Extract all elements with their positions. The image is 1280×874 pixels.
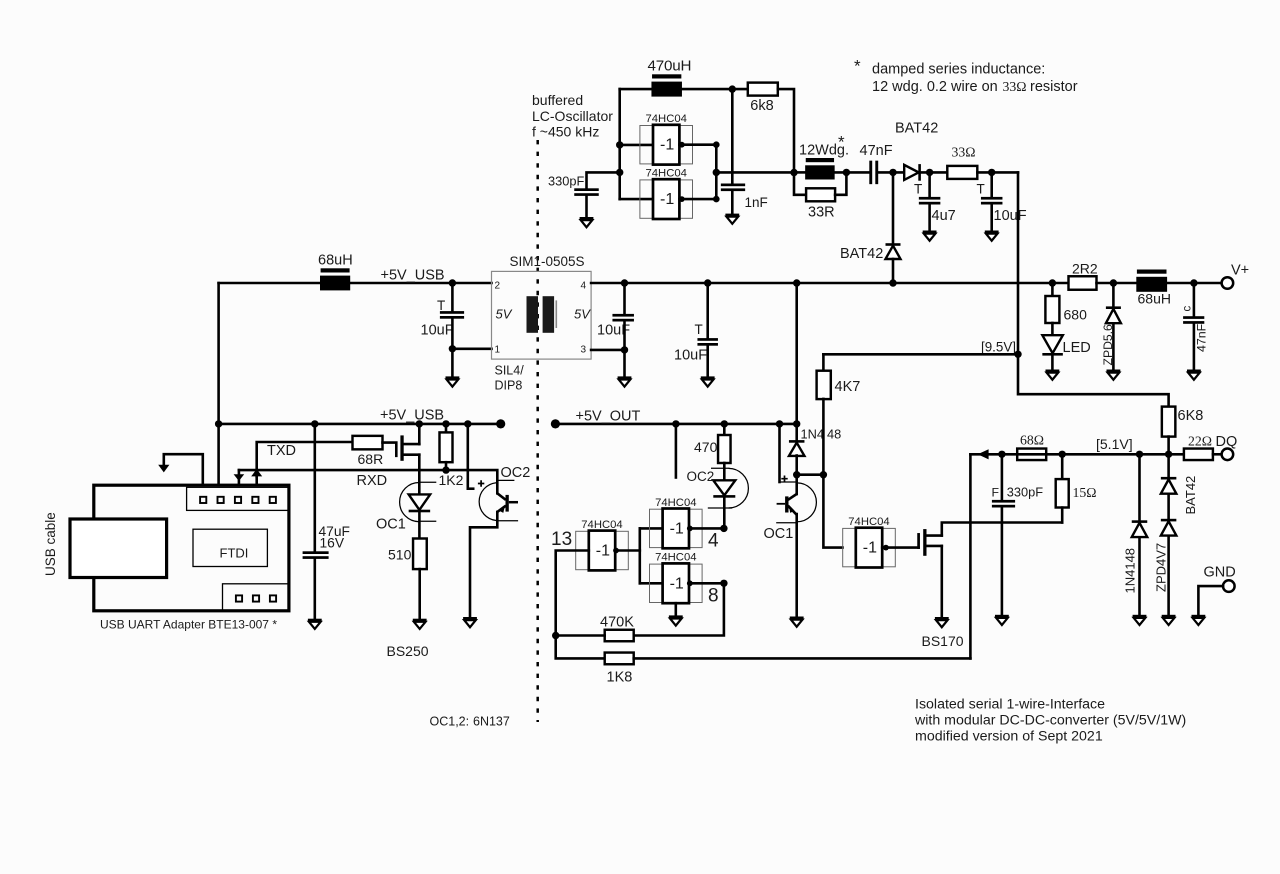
inductor L 68uH right bbox=[1137, 270, 1167, 274]
svg-text:SIM1-0505S: SIM1-0505S bbox=[510, 254, 585, 269]
svg-text:T: T bbox=[437, 298, 445, 313]
inverter U4 74HC04 pin8 bbox=[650, 564, 703, 602]
svg-text:BAT42: BAT42 bbox=[895, 121, 938, 137]
svg-text:33Ω: 33Ω bbox=[1003, 79, 1027, 94]
DC-DC module U SIM1-0505S box bbox=[492, 271, 592, 359]
svg-text:12 wdg. 0.2 wire on: 12 wdg. 0.2 wire on bbox=[872, 79, 998, 95]
svg-text:10uF: 10uF bbox=[421, 323, 454, 339]
capacitor C T 10uF second bbox=[706, 283, 709, 338]
svg-text:68Ω: 68Ω bbox=[1020, 433, 1044, 448]
node: 680 branch bbox=[1049, 279, 1056, 286]
wire: input cap to pin1 node bbox=[451, 319, 454, 349]
svg-text:ZPD4V7: ZPD4V7 bbox=[1153, 543, 1168, 592]
svg-text:16V: 16V bbox=[320, 536, 345, 551]
svg-text:4: 4 bbox=[708, 531, 719, 552]
node: 6K8/zener branch on 5.1V rail bbox=[1165, 451, 1172, 458]
svg-text:510: 510 bbox=[388, 547, 412, 563]
svg-text:-1: -1 bbox=[660, 191, 674, 208]
svg-text:OC1,2:: OC1,2: bbox=[430, 715, 470, 729]
resistor R 68ohm bbox=[1017, 449, 1046, 461]
ground below input cap bbox=[451, 349, 454, 377]
svg-text:8: 8 bbox=[708, 586, 719, 607]
svg-text:680: 680 bbox=[1064, 307, 1088, 323]
svg-text:74HC04: 74HC04 bbox=[655, 552, 696, 564]
ground below pin8 inverter bbox=[674, 603, 677, 615]
svg-text:68uH: 68uH bbox=[1138, 291, 1171, 307]
resistor R 2R2 bbox=[1069, 276, 1097, 290]
wire: pin8 output bbox=[689, 582, 724, 585]
ground below ZPD5.6 bbox=[1107, 370, 1121, 373]
svg-text:470: 470 bbox=[694, 439, 718, 455]
wire: 6K8 to DQ rail bbox=[1167, 437, 1170, 455]
svg-text:6k8: 6k8 bbox=[750, 98, 773, 114]
module: USB UART adapter outer box bbox=[94, 485, 289, 611]
svg-text:[5.1V]: [5.1V] bbox=[1096, 436, 1133, 452]
capacitor C 10uF output bbox=[623, 283, 626, 314]
capacitor C 47nF output bbox=[1193, 283, 1196, 316]
svg-text:T: T bbox=[914, 182, 922, 197]
terminal DQ bbox=[1222, 449, 1234, 461]
wire: feedback riser to DQ filter bbox=[969, 454, 972, 658]
inverter U3 74HC04 pin4 bbox=[650, 509, 703, 547]
wire: upper inverter input bbox=[620, 144, 653, 147]
diode D 1N4148 bbox=[795, 424, 798, 442]
wire: TXD to 68R bbox=[257, 442, 353, 470]
optocoupler OC2 output transistor bbox=[466, 424, 469, 489]
wire: corner to 330pF node bbox=[970, 453, 1002, 456]
optocoupler OC2 LED (right half) bbox=[723, 463, 726, 481]
svg-text:*: * bbox=[854, 57, 861, 76]
svg-text:1: 1 bbox=[495, 345, 501, 356]
resistor R 6k8 bbox=[748, 83, 778, 96]
wire: to 4K7 node bbox=[797, 473, 824, 476]
svg-text:RXD: RXD bbox=[357, 473, 388, 489]
node: input/330pF junction bbox=[616, 169, 623, 176]
adapter bottom pin header bbox=[223, 584, 289, 611]
svg-text:13: 13 bbox=[551, 529, 572, 550]
svg-text:47nF: 47nF bbox=[1194, 323, 1208, 352]
svg-text:resistor: resistor bbox=[1030, 79, 1078, 95]
svg-text:OC2: OC2 bbox=[501, 465, 531, 481]
transformer bars inside SIM1 bbox=[527, 296, 539, 333]
svg-text:74HC04: 74HC04 bbox=[645, 168, 686, 180]
optocoupler OC1 LED left bbox=[409, 494, 431, 510]
svg-text:TXD: TXD bbox=[267, 443, 296, 459]
resistor R 68R bbox=[353, 436, 383, 450]
wire: left riser from USB adapter bbox=[217, 283, 220, 485]
wire: TXD from adapter bbox=[255, 470, 258, 476]
resistor R 15ohm vertical bbox=[1061, 454, 1064, 479]
wire: riser to lower rail bbox=[795, 283, 798, 424]
svg-text:4: 4 bbox=[581, 281, 587, 292]
node: 10uF out junction bbox=[621, 279, 628, 286]
wire: OC2 LED cathode down to inverter node bbox=[723, 496, 726, 529]
wire: 9.5V to 4K7 bbox=[823, 353, 1018, 356]
svg-text:T: T bbox=[695, 322, 703, 337]
inverter U1B 74HC04 -1 (oscillator lower) bbox=[640, 180, 693, 218]
capacitor C 330pF filter bbox=[1001, 454, 1004, 500]
LED D bbox=[1051, 323, 1054, 335]
node: 4u7 junction bbox=[926, 169, 933, 176]
resistor R 33ohm bbox=[947, 166, 977, 179]
svg-text:33Ω: 33Ω bbox=[952, 145, 976, 160]
wire: BS170 drain to 15R snubber line bbox=[942, 523, 1062, 536]
svg-text:+5V_OUT: +5V_OUT bbox=[576, 409, 641, 425]
svg-text:OC1: OC1 bbox=[376, 517, 406, 533]
svg-text:ZPD5.6: ZPD5.6 bbox=[1101, 324, 1115, 366]
wire: 5.1V rail bbox=[1062, 453, 1184, 456]
inductor L 68uH left bbox=[321, 268, 350, 272]
svg-text:22Ω: 22Ω bbox=[1188, 433, 1212, 448]
svg-text:5V: 5V bbox=[574, 307, 591, 322]
ground below 4u7 bbox=[928, 205, 931, 231]
ground below 47nF bbox=[1193, 324, 1196, 370]
resistor R 33R parallel bbox=[794, 173, 806, 195]
wire: OC1 LED cathode to 510 bbox=[418, 511, 421, 539]
wire: pin 1 lead bbox=[452, 347, 491, 350]
wire: GND terminal to ground bbox=[1198, 586, 1223, 615]
wire: outputs down to 470K bbox=[634, 583, 724, 635]
svg-text:2: 2 bbox=[495, 281, 501, 292]
svg-text:2R2: 2R2 bbox=[1072, 261, 1098, 277]
svg-text:-1: -1 bbox=[670, 575, 684, 592]
svg-text:damped series inductance:: damped series inductance: bbox=[872, 62, 1045, 78]
svg-text:15Ω: 15Ω bbox=[1073, 485, 1097, 500]
node: riser to +5V_OUT lower rail bbox=[793, 279, 800, 286]
terminal V+ bbox=[1222, 277, 1234, 289]
wire: 12Wdg to 47nF node bbox=[835, 171, 870, 174]
resistor R 1K2 vertical bbox=[445, 424, 448, 433]
svg-text:-1: -1 bbox=[863, 540, 877, 557]
wire: RXD to OC2 collector bbox=[446, 470, 497, 493]
svg-text:1K8: 1K8 bbox=[607, 670, 633, 686]
resistor R 470 vertical bbox=[723, 424, 726, 435]
capacitor C 10uF with T bbox=[990, 172, 993, 197]
svg-text:74HC04: 74HC04 bbox=[655, 497, 696, 509]
svg-text:buffered: buffered bbox=[532, 92, 583, 108]
inductor L2 12Wdg damped bbox=[806, 158, 834, 162]
svg-text:GND: GND bbox=[1204, 565, 1236, 581]
svg-text:48: 48 bbox=[827, 427, 841, 442]
node: ZPD5.6 branch bbox=[1110, 279, 1117, 286]
ground below T 10uF bbox=[706, 346, 709, 377]
node: stub to 74HC04 supply bbox=[672, 420, 679, 427]
diode D BAT42 vertical to +5V rail bbox=[892, 172, 895, 244]
capacitor C 330pF oscillator bbox=[574, 188, 599, 191]
zener diode ZPD5.6 bbox=[1112, 283, 1115, 308]
svg-text:OC1: OC1 bbox=[764, 526, 794, 542]
node: OC1 collector junction bbox=[793, 471, 800, 478]
wire: 470uH to 6k8 node bbox=[682, 88, 748, 91]
zener diode ZPD4V7 bbox=[1167, 494, 1170, 520]
svg-text:-1: -1 bbox=[596, 543, 610, 560]
svg-text:470K: 470K bbox=[600, 615, 634, 631]
wire: 2R2 to 68uH bbox=[1097, 282, 1137, 285]
wire: 1nF branch vertical bbox=[731, 89, 734, 183]
inverter U5 74HC04 BS170 driver bbox=[843, 528, 896, 566]
FTDI chip box bbox=[193, 529, 267, 566]
node: 47uF branch bbox=[311, 420, 318, 427]
svg-text:1nF: 1nF bbox=[745, 195, 768, 210]
capacitor C 4u7 with T bbox=[928, 172, 931, 197]
inverter U2 74HC04 pin13 bbox=[576, 531, 629, 569]
svg-text:74HC04: 74HC04 bbox=[645, 113, 686, 125]
wire: node up to pin13 input bbox=[556, 551, 589, 636]
svg-text:-1: -1 bbox=[670, 520, 684, 537]
wire: OC2 emitter to ground bbox=[470, 512, 497, 617]
svg-text:*: * bbox=[838, 133, 845, 152]
svg-text:F: F bbox=[992, 486, 1000, 500]
node: 12Wdg right bbox=[843, 169, 850, 176]
svg-text:DQ: DQ bbox=[1216, 434, 1238, 450]
svg-text:BAT42: BAT42 bbox=[840, 246, 883, 262]
node: 15ohm branch bbox=[1059, 451, 1066, 458]
wire: 47uF to ground bbox=[313, 559, 316, 619]
wire: rail to V+ terminal bbox=[1167, 282, 1221, 285]
wire: BAT42 to 4u7 node bbox=[920, 171, 948, 174]
node: pin3/gnd junction bbox=[621, 346, 628, 353]
wire: 330pF to input node bbox=[587, 172, 620, 188]
node: T 10uF junction bbox=[704, 279, 711, 286]
resistor R 470K bbox=[605, 630, 634, 642]
svg-text:f ~450 kHz: f ~450 kHz bbox=[532, 124, 599, 140]
diode D 1N4148 clamp bbox=[1138, 454, 1141, 521]
svg-text:OC2: OC2 bbox=[687, 469, 715, 484]
inverter U1A 74HC04 -1 (oscillator upper) bbox=[640, 126, 693, 164]
node: oscillator output junction bbox=[713, 169, 720, 176]
wire: +5V_OUT lower rail bbox=[555, 423, 796, 426]
node: OC1 Vcc branch bbox=[776, 420, 783, 427]
wire: 1K8 right to BS170 area riser bbox=[634, 657, 971, 660]
wire: BS170 source to ground bbox=[940, 546, 943, 617]
transistor Q BS170 bbox=[917, 534, 920, 547]
node: 470uH/6k8/1nF junction bbox=[729, 85, 736, 92]
terminal GND bbox=[1223, 580, 1235, 592]
wire: oscillator input vertical bbox=[618, 89, 621, 199]
node: BAT42 return on rail bbox=[889, 279, 896, 286]
svg-text:4u7: 4u7 bbox=[932, 208, 956, 224]
wire: lower inverter output bbox=[679, 172, 716, 199]
svg-text:USB UART Adapter BTE13-007 *: USB UART Adapter BTE13-007 * bbox=[100, 618, 277, 632]
svg-text:4K7: 4K7 bbox=[835, 379, 861, 395]
svg-text:6K8: 6K8 bbox=[1178, 408, 1204, 424]
wire: pin 3 lead bbox=[591, 349, 624, 352]
svg-text:BS250: BS250 bbox=[387, 643, 429, 659]
svg-text:c: c bbox=[1182, 306, 1194, 312]
svg-text:6N137: 6N137 bbox=[473, 715, 510, 729]
wire: lower inverter input bbox=[620, 198, 653, 201]
wire: 68ohm to 15ohm node bbox=[1002, 453, 1062, 456]
wire: 510 to ground bbox=[418, 569, 421, 619]
capacitor C 47uF 16V bbox=[313, 424, 316, 551]
OC2 boundary thin lines and arc bbox=[708, 468, 733, 508]
node: upper inverter input bbox=[616, 141, 623, 148]
svg-text:FTDI: FTDI bbox=[220, 546, 249, 561]
wire: chain output down to 9.5V node bbox=[1017, 172, 1020, 354]
arrow: ground return into adapter bbox=[164, 454, 203, 485]
node: BAT42 anode junction bbox=[889, 169, 896, 176]
transistor Q BS250 bbox=[383, 443, 397, 456]
wire: 470K left to node bbox=[556, 634, 605, 637]
node: 330pF filter junction bbox=[998, 451, 1005, 458]
arrow: direction into filter bbox=[978, 449, 989, 459]
wire: oscillator top rail left segment bbox=[620, 88, 652, 91]
ground below 10uF bbox=[990, 205, 993, 231]
svg-text:T: T bbox=[977, 182, 985, 197]
wire: +5V_USB top rail left bbox=[219, 282, 492, 285]
resistor R 4K7 vertical bbox=[822, 354, 825, 371]
svg-text:3: 3 bbox=[581, 345, 587, 356]
svg-text:68R: 68R bbox=[358, 451, 384, 467]
svg-text:modified version of Sept 2021: modified version of Sept 2021 bbox=[915, 729, 1103, 745]
wire: 33ohm to 10uF node bbox=[977, 171, 1018, 174]
svg-text:10uF: 10uF bbox=[994, 208, 1027, 224]
wire: RXD line bbox=[238, 470, 241, 474]
svg-text:BS170: BS170 bbox=[922, 633, 964, 649]
ground below 330pF bbox=[585, 196, 588, 217]
svg-text:330pF: 330pF bbox=[1007, 485, 1043, 500]
resistor R 6K8 vertical bbox=[1162, 407, 1176, 437]
svg-text:with modular DC-DC-converter (: with modular DC-DC-converter (5V/5V/1W) bbox=[914, 713, 1186, 729]
wire: OC1 Vcc lead bbox=[778, 424, 781, 482]
diode D BAT42 series bbox=[904, 165, 919, 180]
node: oscillator output right corner bbox=[790, 169, 797, 176]
svg-text:470uH: 470uH bbox=[648, 58, 692, 75]
svg-text:1N4: 1N4 bbox=[801, 427, 824, 442]
node: RXD junction bbox=[442, 466, 449, 473]
wire: 9.5V down and right to 6K8 bbox=[1018, 354, 1169, 406]
node: 9.5V junction bbox=[1014, 351, 1021, 358]
wire: output node to 12Wdg bbox=[794, 171, 805, 174]
svg-text:[9.5V]: [9.5V] bbox=[981, 340, 1016, 355]
wire: 47nF to BAT42 bbox=[878, 171, 904, 174]
svg-text:LC-Oscillator: LC-Oscillator bbox=[532, 108, 613, 124]
svg-text:47nF: 47nF bbox=[860, 143, 893, 159]
svg-text:Isolated serial 1-wire-Interfa: Isolated serial 1-wire-Interface bbox=[915, 697, 1105, 713]
node: 10uF junction bbox=[988, 169, 995, 176]
node: feedback junction bbox=[552, 632, 559, 639]
svg-text:LED: LED bbox=[1063, 340, 1091, 356]
capacitor C 10uF input with T bbox=[451, 283, 454, 311]
optocoupler OC1 phototransistor bbox=[795, 475, 798, 494]
inductor L1 470uH bbox=[652, 74, 681, 78]
wire: inverter output to BS170 gate bbox=[882, 546, 918, 549]
resistor R 680 vertical bbox=[1051, 283, 1054, 296]
node: 4K7 bottom junction bbox=[820, 471, 827, 478]
svg-text:5V: 5V bbox=[496, 307, 513, 322]
wire: pin13 output to pair inputs bbox=[616, 549, 640, 552]
svg-text:330pF: 330pF bbox=[548, 173, 584, 188]
svg-text:+5V_USB: +5V_USB bbox=[381, 268, 445, 284]
node: pin1/gnd junction bbox=[449, 345, 456, 352]
node: 470 branch bbox=[721, 420, 728, 427]
wire: 33R right to node bbox=[835, 172, 846, 194]
svg-text:10uF: 10uF bbox=[674, 348, 707, 364]
USB connector box bbox=[70, 519, 167, 578]
resistor R 1K8 bbox=[556, 636, 605, 659]
svg-text:+5V_USB: +5V_USB bbox=[380, 408, 444, 424]
svg-text:V+: V+ bbox=[1231, 263, 1249, 279]
svg-text:33R: 33R bbox=[808, 205, 835, 221]
capacitor C 1nF bbox=[721, 184, 745, 187]
wire: 4K7 node down to inverter input bbox=[823, 475, 842, 548]
node: OC2 Vcc branch bbox=[464, 420, 471, 427]
svg-text:USB cable: USB cable bbox=[43, 512, 58, 576]
capacitor C 47nF series bbox=[869, 161, 872, 185]
wire: oscillator output to 12Wdg inductor bbox=[716, 171, 794, 174]
wire: pin4 output bbox=[689, 527, 724, 530]
svg-text:74HC04: 74HC04 bbox=[581, 519, 622, 531]
wire: +5V_OUT top rail from pin4 bbox=[591, 282, 1069, 285]
resistor R 22ohm bbox=[1184, 449, 1213, 461]
svg-text:68uH: 68uH bbox=[318, 253, 353, 269]
node: 1N4148 branch / riser bbox=[793, 420, 800, 427]
svg-text:-1: -1 bbox=[660, 137, 674, 154]
node: input 10uF junction bbox=[449, 279, 456, 286]
svg-text:74HC04: 74HC04 bbox=[848, 516, 889, 528]
wire: OC1 emitter to ground bbox=[795, 514, 798, 617]
svg-text:BAT42: BAT42 bbox=[1183, 476, 1198, 515]
ground below LED bbox=[1051, 354, 1054, 370]
isolation dashed line bbox=[536, 140, 539, 722]
ground below output cap bbox=[618, 376, 632, 379]
node: BS250 source on rail bbox=[416, 420, 423, 427]
svg-text:DIP8: DIP8 bbox=[495, 379, 523, 393]
node: 1N4148 branch on 5.1V rail bbox=[1136, 451, 1143, 458]
node: 1K2 branch bbox=[442, 420, 449, 427]
svg-text:1K2: 1K2 bbox=[439, 472, 464, 488]
svg-text:1N4148: 1N4148 bbox=[1122, 548, 1137, 594]
wire: 330pF to ground bbox=[1001, 507, 1004, 614]
wire: upper inverter output bbox=[679, 145, 716, 173]
adapter top pin header bbox=[187, 487, 289, 510]
diode D BAT42 clamp bbox=[1167, 454, 1170, 478]
svg-text:SIL4/: SIL4/ bbox=[495, 364, 525, 378]
wire: 6k8 right down to oscillator output line bbox=[778, 89, 794, 172]
resistor R 510 vertical bbox=[413, 539, 427, 570]
ground below 1nF bbox=[731, 191, 734, 214]
wire: stub down (74HC04 supply) bbox=[675, 424, 678, 478]
node: 47nF output branch bbox=[1190, 279, 1197, 286]
wire: +5V_USB lower rail bbox=[219, 423, 501, 426]
wire: 22ohm to DQ terminal bbox=[1213, 453, 1222, 456]
